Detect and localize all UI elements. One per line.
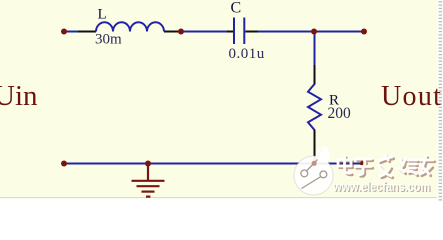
svg-text:Uin: Uin [0, 80, 38, 112]
ground [132, 164, 165, 197]
node dot: output bottom-right [360, 161, 366, 167]
svg-text:200: 200 [328, 105, 352, 122]
capacitor C [227, 18, 258, 45]
node dot: top junction at resistor branch [311, 29, 317, 35]
inductor L [78, 22, 181, 31]
node dot: output top-right [361, 29, 367, 35]
wire: capacitor C to top junction [256, 31, 314, 33]
node dot: input bottom-left [61, 161, 67, 167]
wire: bottom rail [64, 163, 363, 165]
wire: top junction to output node [314, 31, 364, 33]
svg-text:C: C [231, 0, 242, 16]
svg-text:0.01u: 0.01u [229, 46, 265, 62]
watermark [294, 146, 435, 195]
resistor R [308, 65, 321, 163]
node dot: junction L-C [178, 29, 184, 35]
svg-text:Uout: Uout [381, 81, 442, 112]
node dot: bottom junction at resistor branch [311, 161, 317, 167]
svg-text:30m: 30m [95, 32, 122, 48]
node dot: ground junction [145, 161, 151, 167]
svg-text:www.elecfans.com: www.elecfans.com [332, 180, 430, 194]
wire: inductor L to capacitor C [179, 31, 230, 33]
node dot: input top-left [61, 29, 67, 35]
wire: resistor R down to bottom junction [314, 140, 316, 164]
wire: top junction down to resistor R [314, 32, 316, 67]
wire: input node to inductor L [64, 31, 80, 33]
svg-text:L: L [98, 6, 107, 22]
